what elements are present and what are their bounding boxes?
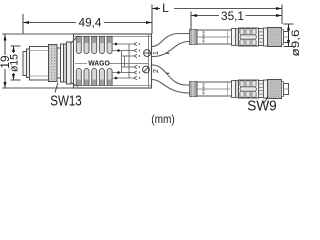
boot centerline [198,88,231,90]
M12 ring 3 [57,48,61,78]
M12 front ring 1 [23,52,27,76]
boot [197,82,232,96]
svg-text:1: 1 [151,51,160,55]
pin arrows [134,42,137,80]
boot [197,30,232,44]
svg-text:SW9: SW9 [247,99,277,115]
boot centerline [198,36,231,38]
M12 washer [61,44,64,82]
dimension 19 vertical [2,34,152,88]
boot vent marking [203,83,205,94]
ring A [232,81,236,98]
M12 knurled ring SW13 [49,45,58,82]
hex nut SW9 [268,80,282,99]
M12 coupling nut [30,47,49,81]
svg-text:(mm): (mm) [151,112,175,126]
junction dots [115,43,118,46]
ring B [236,29,240,46]
dimension ø15 vertical [11,46,21,80]
dimension L arrows [152,7,158,10]
ring B [236,81,240,98]
extension line at M8 collar [190,12,192,30]
extension line at M8 tip [281,5,283,25]
dimension ø9,6 [284,24,294,47]
svg-text:35,1: 35,1 [221,9,244,23]
cable 1 outline top [152,34,190,47]
dimension L line [153,8,282,10]
Y-body inner bottom line [74,85,152,87]
M8 connector 2 (bottom) [190,80,289,99]
Y-body grip grooves top [76,37,112,54]
extension line at body end [151,5,153,34]
tip [284,32,289,43]
Y-body inner top line [74,36,152,38]
ribbed grip [239,80,259,98]
M12 nut chamfer lines [30,50,49,52]
dimension 49,4 arrows [23,21,29,24]
svg-text:SW13: SW13 [50,94,82,110]
M12 front ring 2 [27,49,30,78]
tip ring [282,30,284,45]
Y-body mid seam [75,63,87,65]
dimension 35,1 line [192,15,282,17]
svg-text:WAGO: WAGO [88,58,110,67]
svg-text:L: L [162,1,169,15]
boot vent marking [203,31,205,42]
cable 2 outline bottom [152,80,190,94]
tip [284,84,289,95]
crossover verticals [121,51,123,73]
hex nut SW9 [268,28,282,47]
plain band [264,80,268,98]
tip centerline [284,88,289,90]
SW9 leader [264,97,268,104]
Y-body end cap line [148,34,150,88]
svg-text:49,4: 49,4 [79,16,102,30]
port symbol 2 [143,66,150,73]
printed schematic wires top group [112,44,134,78]
cable 1 tick mark [166,53,169,54]
extension line left of 49,4 [22,14,24,34]
crimp collar [190,30,198,45]
crimp collar [190,82,198,97]
svg-text:ø15: ø15 [9,54,21,72]
SW13 leader [55,83,58,93]
cable 2 outline top [152,65,190,85]
tip centerline [284,36,289,38]
Y-body grip grooves bottom [76,68,112,85]
segment stack [259,81,264,98]
svg-text:2: 2 [151,69,160,73]
tiny pin numbers [139,43,140,79]
M8 connector 1 (top) [190,28,289,47]
ribbed grip [239,28,259,46]
dimension 35,1 arrows [191,14,197,17]
plain band [264,28,268,46]
svg-text:ø9,6: ø9,6 [290,30,300,57]
port symbol 1 [144,50,151,57]
ring A [232,29,236,46]
dimension 49,4 line [24,22,152,24]
cable 2 tick mark [166,73,169,74]
Y-body outline [74,34,152,88]
cable 1 outline bottom [152,42,190,57]
segment stack [259,29,264,46]
M12 collar piece [67,42,72,84]
tip ring [282,82,284,97]
